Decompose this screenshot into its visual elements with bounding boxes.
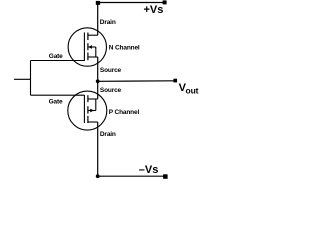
terminal -Vs [163, 174, 168, 179]
Q1 gate bar [83, 32, 85, 61]
Q1 body lead with arrow [88, 46, 95, 48]
wire gate bus vertical [30, 61, 32, 96]
Q2 body lead with arrow [88, 110, 96, 112]
Q1 body-to-source tie [95, 47, 97, 57]
wire +Vs rail [98, 2, 165, 4]
svg-text:N Channel: N Channel [109, 45, 140, 52]
svg-text:Gate: Gate [49, 98, 63, 105]
wire -Vs rail [98, 175, 166, 177]
Q1 channel segment middle [87, 43, 89, 50]
node top-left junction [96, 1, 100, 5]
transistor Q2 P-channel MOSFET body circle [68, 91, 107, 130]
Q2 source lead [88, 98, 98, 100]
svg-text:Drain: Drain [100, 19, 116, 26]
Q2 drain lead [88, 121, 98, 123]
wire Q1 source to output node [97, 57, 99, 99]
node bottom junction [96, 174, 100, 178]
Q2 gate bar [83, 95, 85, 123]
svg-text:out: out [186, 85, 199, 95]
wire output to Vout [98, 80, 174, 83]
wire input stub [14, 78, 31, 80]
svg-text:P Channel: P Channel [109, 109, 140, 116]
wire Q2 drain to -Vs rail [97, 122, 99, 176]
Q2 body-to-source tie [95, 99, 97, 111]
Q1 channel segment bottom [87, 53, 89, 61]
transistor Q1 N-channel MOSFET body circle [68, 28, 106, 66]
Q2 channel segment middle [87, 106, 89, 113]
svg-text:+Vs: +Vs [144, 4, 164, 16]
wire Q1 gate lead [31, 60, 85, 62]
terminal Vout [173, 79, 177, 83]
svg-text:–Vs: –Vs [139, 164, 159, 176]
svg-text:Source: Source [100, 67, 122, 74]
Q2 channel segment bottom [87, 116, 89, 123]
Q1 channel segment top [87, 33, 89, 41]
svg-text:Drain: Drain [100, 131, 116, 138]
wire N drain vertical [97, 3, 99, 36]
svg-text:Gate: Gate [49, 53, 63, 60]
wire Q2 gate lead [31, 94, 85, 96]
Q1 source lead [88, 56, 98, 58]
Q1 drain lead [88, 34, 98, 36]
svg-text:Source: Source [100, 87, 122, 94]
node output junction [96, 79, 100, 83]
terminal +Vs [163, 0, 167, 4]
Q2 channel segment top [87, 95, 89, 102]
